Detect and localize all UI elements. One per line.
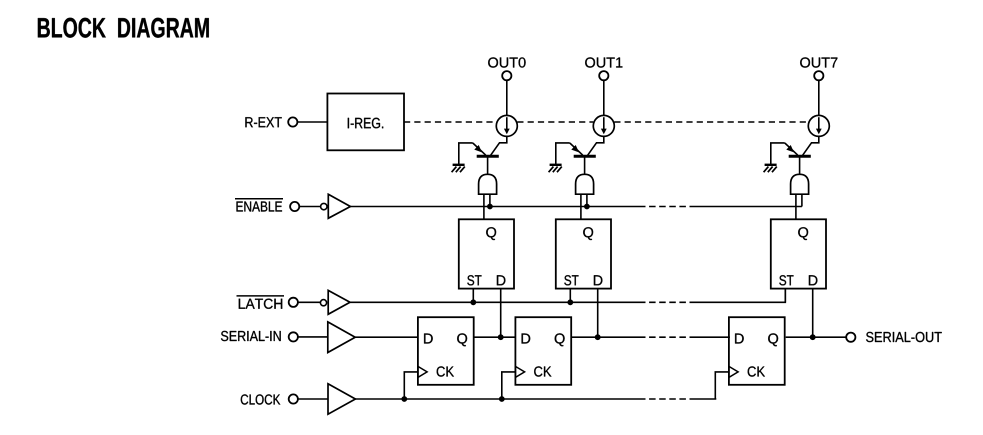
- node ENABLE label: [235, 199, 283, 212]
- wire emitter of Q-OUT1 to ground: [556, 143, 570, 164]
- junction latch L-OUT7 D tap: [810, 334, 816, 340]
- wire ENABLE line dashed continuation: [639, 206, 694, 208]
- junction latch L-OUT0 ST on LATCH line: [470, 299, 476, 305]
- wire LATCH line: [350, 301, 639, 303]
- buffer SERIAL-IN: [328, 322, 355, 353]
- wire clock tap to FF1 CK: [404, 372, 418, 399]
- wire R-EXT to I-REG: [297, 121, 327, 123]
- wire collector of Q-OUT0: [491, 136, 507, 155]
- latch L-OUT7: [771, 219, 826, 288]
- wire OUT0 terminal to current source: [506, 80, 508, 115]
- wire latch L-OUT7 ST input: [784, 289, 786, 303]
- terminal OUT7: [814, 71, 823, 80]
- wire FF8 Q to SERIAL-OUT: [786, 336, 847, 338]
- flip-flop FF1: [418, 317, 474, 385]
- and-gate G-OUT1: [576, 174, 594, 194]
- wire latch L-OUT7 D input from shift register: [812, 289, 814, 338]
- wire LATCH line right section to latch L-OUT7 ST: [694, 289, 785, 303]
- wire LATCH terminal to buffer: [298, 301, 321, 303]
- transistor Q-OUT1: [570, 143, 596, 156]
- wire OUT7 terminal to current source: [818, 80, 820, 115]
- node SERIAL-IN label: [221, 331, 281, 341]
- wire CLOCK terminal to buffer: [298, 398, 328, 400]
- current source I-OUT0: [496, 115, 517, 136]
- wire SERIAL-IN buffer to FF1 D: [355, 336, 418, 338]
- wire FF2 Q to dashed break: [571, 336, 639, 338]
- wire clock tap to FF2 CK: [502, 372, 516, 399]
- wire ENABLE line: [350, 206, 639, 208]
- node R-EXT label: [245, 117, 281, 127]
- wire collector of Q-OUT1: [588, 136, 604, 155]
- node OUT0 label: [488, 57, 525, 67]
- terminal CLOCK: [289, 394, 298, 403]
- wire gate G-OUT0 input B to ENABLE line: [489, 194, 491, 206]
- terminal OUT1: [599, 71, 608, 80]
- junction latch L-OUT1 ST on LATCH line: [567, 299, 573, 305]
- wire gate G-OUT7 input B to ENABLE line: [801, 194, 803, 206]
- terminal OUT0: [502, 71, 511, 80]
- wire gate G-OUT1 input A to latch Q: [580, 194, 582, 219]
- wire base of Q-OUT0 to gate: [487, 158, 489, 175]
- buffer CLOCK: [328, 384, 355, 414]
- wire latch L-OUT0 D input from shift register: [500, 289, 502, 338]
- node CLOCK label: [241, 394, 280, 404]
- wire clock tap to FF8 CK: [715, 372, 729, 399]
- wire FF1 Q to FF2 D: [474, 336, 516, 338]
- dashed bias line I-REG to current sources: [404, 121, 808, 123]
- ground (column OUT1): [549, 165, 562, 172]
- wire latch L-OUT1 D input from shift register: [597, 289, 599, 338]
- block I-REG (current regulator): [327, 94, 404, 151]
- title BLOCK DIAGRAM: [38, 18, 209, 38]
- wire latch L-OUT0 ST input: [472, 289, 474, 303]
- wire base of Q-OUT7 to gate: [799, 158, 801, 175]
- wire emitter of Q-OUT0 to ground: [459, 143, 473, 164]
- wire shift register dashed continuation: [639, 336, 694, 338]
- flip-flop FF8: [729, 317, 785, 385]
- node SERIAL-OUT label: [866, 332, 942, 342]
- current source I-OUT1: [593, 115, 614, 136]
- wire latch L-OUT1 ST input: [569, 289, 571, 303]
- transistor Q-OUT0: [473, 143, 499, 156]
- wire gate G-OUT0 input A to latch Q: [483, 194, 485, 219]
- wire ENABLE line right section: [694, 206, 802, 208]
- node OUT1 label: [585, 57, 622, 67]
- transistor Q-OUT7: [785, 143, 811, 156]
- latch L-OUT1: [556, 219, 611, 288]
- buffer ENABLE (inverting-input): [321, 194, 351, 218]
- wire ENABLE terminal to buffer: [299, 206, 320, 208]
- wire LATCH line dashed continuation: [639, 301, 694, 303]
- junction gate G-OUT0 on ENABLE line: [487, 204, 493, 210]
- node LATCH label: [237, 296, 285, 309]
- node OUT7 label: [800, 57, 837, 67]
- junction gate G-OUT1 on ENABLE line: [584, 204, 590, 210]
- terminal SERIAL-IN: [289, 332, 298, 341]
- junction latch L-OUT0 D tap: [498, 334, 504, 340]
- current source I-OUT7: [808, 115, 829, 136]
- wire CLOCK line: [355, 398, 639, 400]
- wire into FF8 D: [694, 336, 730, 338]
- wire collector of Q-OUT7: [803, 136, 819, 155]
- wire base of Q-OUT1 to gate: [584, 158, 586, 175]
- ground (column OUT7): [764, 165, 777, 172]
- wire CLOCK line dashed continuation: [639, 398, 694, 400]
- wire CLOCK line right section: [694, 398, 716, 400]
- and-gate G-OUT0: [479, 174, 497, 194]
- wire gate G-OUT1 input B to ENABLE line: [586, 194, 588, 206]
- terminal ENABLE: [290, 202, 299, 211]
- wire emitter of Q-OUT7 to ground: [771, 143, 785, 164]
- junction latch L-OUT1 D tap: [595, 334, 601, 340]
- terminal SERIAL-OUT: [846, 333, 855, 342]
- junction clock tap FF1: [401, 396, 407, 402]
- terminal LATCH: [289, 298, 298, 307]
- terminal R-EXT: [288, 117, 297, 126]
- wire gate G-OUT7 input A to latch Q: [795, 194, 797, 219]
- ground (column OUT0): [452, 165, 465, 172]
- wire SERIAL-IN terminal to buffer: [298, 336, 328, 338]
- buffer LATCH (inverting-input): [320, 290, 350, 314]
- and-gate G-OUT7: [791, 174, 809, 194]
- wire OUT1 terminal to current source: [603, 80, 605, 115]
- latch L-OUT0: [459, 219, 514, 288]
- flip-flop FF2: [515, 317, 571, 385]
- junction clock tap FF2: [499, 396, 505, 402]
